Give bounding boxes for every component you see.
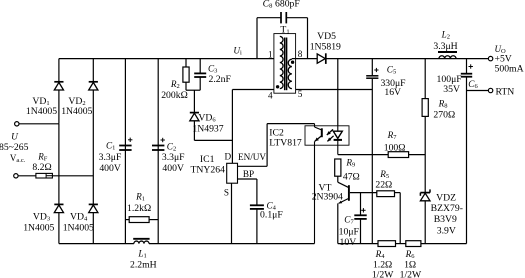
- svg-text:S: S: [224, 187, 229, 197]
- svg-text:8.2Ω: 8.2Ω: [32, 162, 51, 173]
- svg-text:1N4005: 1N4005: [61, 106, 92, 117]
- svg-text:VD5: VD5: [317, 31, 336, 42]
- svg-text:35V: 35V: [443, 84, 460, 95]
- svg-text:3.9V: 3.9V: [437, 226, 456, 237]
- svg-text:1/2W: 1/2W: [400, 270, 422, 278]
- svg-text:0.1μF: 0.1μF: [260, 210, 283, 221]
- svg-text:200kΩ: 200kΩ: [161, 90, 188, 101]
- svg-text:3.3μF: 3.3μF: [99, 152, 122, 163]
- svg-text:10V: 10V: [340, 237, 357, 248]
- svg-text:D: D: [224, 152, 231, 162]
- svg-text:BZX79-: BZX79-: [431, 203, 463, 214]
- svg-text:16V: 16V: [384, 87, 401, 98]
- svg-text:BP: BP: [243, 169, 254, 179]
- svg-text:1N4005: 1N4005: [26, 106, 57, 117]
- svg-text:2.2nF: 2.2nF: [209, 74, 232, 85]
- svg-text:47Ω: 47Ω: [343, 171, 360, 182]
- svg-text:400V: 400V: [162, 163, 184, 174]
- svg-text:2.2mH: 2.2mH: [130, 259, 157, 270]
- svg-text:5: 5: [298, 89, 303, 99]
- svg-text:2N3904: 2N3904: [312, 191, 343, 202]
- svg-text:8: 8: [298, 49, 303, 59]
- svg-text:85~265: 85~265: [0, 142, 29, 153]
- svg-text:1.2kΩ: 1.2kΩ: [127, 203, 151, 214]
- svg-text:500mA: 500mA: [495, 63, 524, 74]
- svg-text:TNY264: TNY264: [190, 164, 225, 175]
- svg-text:1N4005: 1N4005: [63, 223, 94, 234]
- svg-text:400V: 400V: [99, 163, 121, 174]
- svg-text:10μF: 10μF: [339, 226, 360, 237]
- svg-text:1N4937: 1N4937: [192, 124, 223, 135]
- svg-text:1/2W: 1/2W: [372, 270, 394, 278]
- svg-text:3.3μH: 3.3μH: [433, 41, 457, 52]
- svg-text:IC1: IC1: [200, 154, 215, 165]
- svg-text:1N5819: 1N5819: [310, 42, 341, 53]
- svg-text:B3V9: B3V9: [434, 214, 457, 225]
- svg-text:4: 4: [268, 91, 273, 101]
- svg-text:1N4005: 1N4005: [23, 223, 54, 234]
- svg-text:LTV817: LTV817: [269, 138, 302, 149]
- svg-text:3.3μF: 3.3μF: [162, 152, 185, 163]
- svg-text:22Ω: 22Ω: [375, 180, 392, 191]
- svg-text:RTN: RTN: [496, 86, 515, 97]
- svg-text:EN/UV: EN/UV: [238, 152, 266, 162]
- svg-text:VDZ: VDZ: [436, 193, 456, 204]
- svg-text:680pF: 680pF: [275, 0, 300, 10]
- svg-text:100Ω: 100Ω: [384, 142, 406, 153]
- svg-text:270Ω: 270Ω: [433, 110, 455, 121]
- svg-text:1: 1: [268, 50, 273, 60]
